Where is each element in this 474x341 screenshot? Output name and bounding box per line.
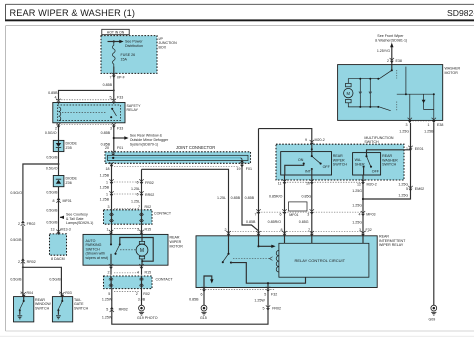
svg-text:0.5G/B: 0.5G/B	[46, 221, 58, 225]
svg-text:8: 8	[53, 199, 55, 203]
svg-text:GATE: GATE	[74, 302, 84, 306]
svg-text:1: 1	[107, 228, 109, 232]
svg-text:8 DACM: 8 DACM	[51, 257, 65, 261]
svg-text:7: 7	[138, 205, 140, 209]
svg-text:1: 1	[59, 291, 61, 295]
svg-text:1.25B: 1.25B	[100, 198, 110, 202]
svg-text:INT: INT	[305, 169, 312, 173]
svg-text:BOX: BOX	[159, 46, 167, 50]
svg-text:OFF: OFF	[323, 165, 331, 169]
svg-text:SWITCH: SWITCH	[35, 307, 50, 311]
svg-text:Z06: Z06	[66, 181, 72, 185]
svg-text:F32: F32	[366, 228, 372, 232]
svg-text:WINDOW: WINDOW	[35, 302, 51, 306]
svg-text:FR02: FR02	[27, 222, 36, 226]
svg-text:0.5G/B: 0.5G/B	[46, 155, 58, 159]
svg-text:wipers at rest): wipers at rest)	[86, 256, 109, 260]
svg-text:Outside Mirror Defogger: Outside Mirror Defogger	[130, 138, 169, 142]
svg-text:7: 7	[255, 213, 257, 217]
svg-text:CONTACT: CONTACT	[156, 278, 174, 282]
svg-text:I/P-F: I/P-F	[117, 76, 126, 80]
svg-text:0.5G/B: 0.5G/B	[46, 208, 58, 212]
svg-text:WIPER: WIPER	[170, 240, 182, 244]
svg-text:See Front Wiper: See Front Wiper	[377, 34, 404, 38]
svg-text:1.25W: 1.25W	[102, 297, 113, 301]
svg-text:3: 3	[110, 127, 112, 131]
svg-text:F33: F33	[117, 96, 123, 100]
svg-text:1: 1	[106, 181, 108, 185]
svg-text:JOINT CONNECTOR: JOINT CONNECTOR	[176, 145, 215, 150]
svg-text:2: 2	[18, 260, 20, 264]
svg-text:R04: R04	[27, 291, 34, 295]
svg-text:3: 3	[406, 123, 408, 127]
svg-text:M20-2: M20-2	[315, 138, 325, 142]
svg-text:R02: R02	[143, 292, 150, 296]
svg-text:1.25W: 1.25W	[254, 299, 265, 303]
svg-text:2: 2	[108, 270, 110, 274]
svg-text:E38: E38	[396, 59, 402, 63]
svg-text:SWITCH: SWITCH	[333, 163, 348, 167]
svg-text:0.5G/B: 0.5G/B	[10, 278, 22, 282]
svg-text:CONTACT: CONTACT	[154, 212, 172, 216]
svg-text:R03: R03	[65, 291, 72, 295]
svg-text:REAR: REAR	[35, 298, 45, 302]
svg-text:0.5G/O: 0.5G/O	[45, 131, 57, 135]
svg-text:SD982-1: SD982-1	[447, 8, 474, 18]
svg-text:0.5G/B: 0.5G/B	[10, 238, 22, 242]
svg-text:F33: F33	[117, 127, 123, 131]
svg-text:1.25G: 1.25G	[398, 183, 408, 187]
svg-text:WA-: WA-	[355, 158, 363, 162]
svg-text:M20-2: M20-2	[367, 182, 377, 186]
svg-text:18: 18	[106, 167, 110, 171]
svg-text:1: 1	[428, 123, 430, 127]
svg-text:R02: R02	[145, 205, 152, 209]
svg-text:5: 5	[110, 96, 112, 100]
svg-text:1: 1	[20, 291, 22, 295]
svg-text:0.85B: 0.85B	[245, 196, 255, 200]
svg-text:0.5G/O: 0.5G/O	[46, 166, 58, 170]
svg-text:0.5G/O: 0.5G/O	[10, 191, 22, 195]
svg-text:0.85B: 0.85B	[246, 220, 256, 224]
svg-text:MF03: MF03	[366, 212, 375, 216]
svg-text:REAR WIPER & WASHER (1): REAR WIPER & WASHER (1)	[10, 8, 136, 18]
svg-text:3: 3	[307, 213, 309, 217]
svg-text:M: M	[140, 248, 144, 254]
svg-text:SWITCH: SWITCH	[382, 163, 397, 167]
svg-text:12: 12	[357, 182, 361, 186]
svg-text:2: 2	[18, 222, 20, 226]
svg-text:MF01: MF01	[63, 199, 72, 203]
svg-text:1.25L: 1.25L	[217, 196, 226, 200]
svg-text:6: 6	[137, 181, 139, 185]
svg-text:E38: E38	[437, 123, 443, 127]
svg-text:1.25W: 1.25W	[102, 315, 113, 319]
svg-text:0.85B: 0.85B	[103, 83, 113, 87]
svg-text:4: 4	[55, 96, 57, 100]
svg-text:I/P: I/P	[159, 37, 164, 41]
svg-text:1.25G: 1.25G	[399, 129, 409, 133]
svg-text:2: 2	[136, 292, 138, 296]
svg-text:DIODE: DIODE	[66, 141, 78, 145]
svg-text:& Washer(SD981-1): & Washer(SD981-1)	[375, 39, 407, 43]
svg-text:SWITCH: SWITCH	[364, 140, 379, 144]
svg-text:Z05: Z05	[66, 146, 72, 150]
svg-text:9: 9	[305, 138, 307, 142]
svg-text:M: M	[347, 91, 351, 96]
svg-text:EE01: EE01	[415, 147, 424, 151]
svg-text:5: 5	[108, 292, 110, 296]
svg-text:System(SD879-1): System(SD879-1)	[130, 142, 159, 146]
svg-text:WIPER RELAY: WIPER RELAY	[379, 243, 404, 247]
svg-text:0.5G/B: 0.5G/B	[46, 190, 58, 194]
svg-text:REAR: REAR	[170, 236, 180, 240]
svg-text:19: 19	[237, 167, 241, 171]
svg-text:3: 3	[137, 228, 139, 232]
svg-text:RR02: RR02	[119, 307, 128, 311]
svg-text:5: 5	[406, 187, 408, 191]
svg-text:JUNCTION: JUNCTION	[159, 41, 178, 45]
svg-text:6: 6	[280, 213, 282, 217]
svg-text:3.0B: 3.0B	[138, 297, 146, 301]
svg-text:EM02: EM02	[415, 187, 424, 191]
svg-text:1.25G: 1.25G	[398, 193, 408, 197]
svg-text:4: 4	[359, 212, 361, 216]
svg-text:MOTOR: MOTOR	[445, 71, 459, 75]
svg-text:RELAY: RELAY	[127, 108, 139, 112]
svg-text:15A: 15A	[121, 57, 128, 61]
svg-text:REAR: REAR	[333, 154, 343, 158]
svg-text:2: 2	[387, 59, 389, 63]
svg-text:1.25L: 1.25L	[131, 187, 140, 191]
svg-text:1.25G: 1.25G	[352, 220, 362, 224]
svg-text:1.25L: 1.25L	[131, 199, 140, 203]
svg-text:SAFETY: SAFETY	[127, 104, 142, 108]
svg-text:WIPER: WIPER	[333, 158, 345, 162]
svg-text:13: 13	[51, 228, 55, 232]
svg-text:REAR: REAR	[379, 234, 389, 238]
svg-text:0.5G/B: 0.5G/B	[49, 278, 61, 282]
svg-text:1.25G: 1.25G	[352, 189, 362, 193]
svg-text:11: 11	[278, 181, 282, 185]
svg-text:F01: F01	[246, 167, 252, 171]
svg-text:WASHER: WASHER	[445, 66, 461, 70]
svg-text:6: 6	[201, 292, 203, 296]
svg-text:5: 5	[264, 292, 266, 296]
svg-text:TAIL: TAIL	[74, 298, 81, 302]
svg-text:5: 5	[263, 306, 265, 310]
svg-text:REAR: REAR	[382, 154, 392, 158]
svg-text:R15: R15	[145, 228, 152, 232]
svg-text:MULTIFUNCTION: MULTIFUNCTION	[364, 136, 393, 140]
svg-text:1.25B: 1.25B	[100, 173, 110, 177]
svg-text:ON: ON	[298, 158, 304, 162]
svg-text:3: 3	[108, 205, 110, 209]
svg-text:0.85B: 0.85B	[101, 131, 111, 135]
svg-text:FUSE 26: FUSE 26	[121, 53, 136, 57]
svg-text:R15: R15	[145, 270, 152, 274]
svg-text:20: 20	[105, 146, 109, 150]
svg-text:F01: F01	[117, 146, 123, 150]
svg-text:FR02: FR02	[272, 306, 281, 310]
svg-text:RR02: RR02	[145, 193, 154, 197]
svg-text:0.85B: 0.85B	[189, 298, 199, 302]
svg-text:5: 5	[106, 307, 108, 311]
svg-text:DIODE: DIODE	[66, 177, 78, 181]
svg-text:1: 1	[106, 193, 108, 197]
svg-text:SWITCH: SWITCH	[74, 307, 89, 311]
svg-text:0.85B: 0.85B	[48, 91, 58, 95]
svg-text:G09: G09	[429, 317, 436, 321]
svg-text:1.25B: 1.25B	[424, 129, 434, 133]
svg-text:See Rear Window &: See Rear Window &	[130, 133, 163, 137]
svg-text:WASHER: WASHER	[382, 158, 398, 162]
svg-text:G19 PHOTO: G19 PHOTO	[137, 316, 158, 320]
svg-text:HOT IN ON: HOT IN ON	[107, 31, 125, 35]
svg-text:0.85R/O: 0.85R/O	[269, 195, 283, 199]
svg-text:RR02: RR02	[27, 260, 36, 264]
svg-text:0.85G: 0.85G	[299, 220, 309, 224]
svg-text:F32: F32	[271, 292, 277, 296]
svg-text:INTERMITTENT: INTERMITTENT	[379, 239, 406, 243]
svg-text:0.85R/O: 0.85R/O	[268, 220, 282, 224]
svg-text:10: 10	[306, 181, 310, 185]
svg-text:7: 7	[110, 76, 112, 80]
svg-text:Lamps(SD929-1): Lamps(SD929-1)	[66, 221, 93, 225]
svg-text:MOTOR: MOTOR	[170, 244, 184, 248]
svg-text:0.85G: 0.85G	[302, 195, 312, 199]
svg-text:RELAY CONTROL CIRCUIT: RELAY CONTROL CIRCUIT	[295, 258, 346, 263]
svg-text:1.25Y/G: 1.25Y/G	[377, 49, 390, 53]
svg-text:MF01: MF01	[289, 213, 298, 217]
svg-text:6: 6	[137, 193, 139, 197]
svg-text:FR02: FR02	[145, 181, 154, 185]
svg-text:0.85B: 0.85B	[231, 196, 241, 200]
svg-text:M13-3: M13-3	[61, 228, 71, 232]
svg-text:4: 4	[137, 270, 139, 274]
svg-text:Distribution: Distribution	[125, 44, 143, 48]
svg-text:OFF: OFF	[372, 169, 380, 173]
svg-text:G15: G15	[200, 316, 207, 320]
svg-text:1.25G: 1.25G	[352, 204, 362, 208]
svg-text:1.25B: 1.25B	[100, 186, 110, 190]
